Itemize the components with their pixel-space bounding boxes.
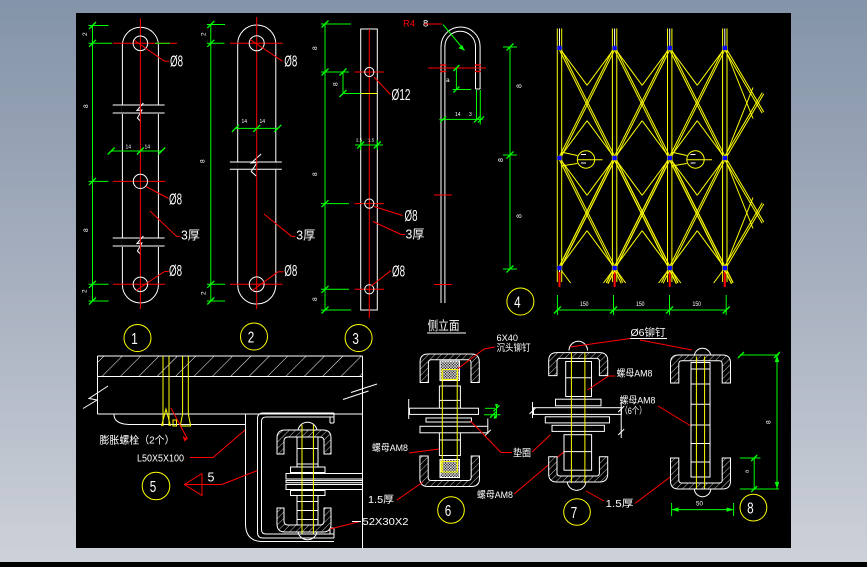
svg-text:1.5: 1.5: [368, 138, 375, 143]
svg-text:8: 8: [333, 82, 340, 86]
svg-text:螺母AM8: 螺母AM8: [477, 490, 513, 501]
svg-text:3: 3: [469, 112, 472, 118]
svg-text:Ø12: Ø12: [392, 87, 411, 104]
svg-text:膨胀螺栓（2个）: 膨胀螺栓（2个）: [100, 434, 175, 447]
svg-text:Ø8: Ø8: [284, 54, 297, 71]
svg-text:50: 50: [696, 502, 704, 508]
svg-text:螺母AM8: 螺母AM8: [620, 396, 656, 407]
svg-text:14: 14: [145, 145, 151, 151]
svg-text:Ø8: Ø8: [392, 264, 405, 281]
svg-text:螺母AM8: 螺母AM8: [617, 369, 653, 380]
svg-text:3: 3: [352, 331, 359, 348]
svg-text:Ø8: Ø8: [170, 54, 183, 71]
svg-text:8: 8: [747, 500, 754, 517]
svg-text:2: 2: [82, 289, 89, 293]
svg-text:2: 2: [82, 32, 89, 36]
svg-text:1.5厚: 1.5厚: [606, 498, 634, 510]
svg-text:（6个）: （6个）: [621, 405, 647, 417]
svg-text:2: 2: [201, 291, 208, 295]
svg-text:8: 8: [83, 104, 90, 108]
svg-text:垫圈: 垫圈: [513, 447, 531, 460]
svg-text:2.5: 2.5: [356, 138, 363, 143]
svg-text:6: 6: [445, 503, 452, 520]
svg-text:52X30X2: 52X30X2: [363, 516, 409, 528]
svg-text:3厚: 3厚: [296, 229, 315, 243]
svg-text:8: 8: [766, 420, 773, 424]
svg-text:14: 14: [260, 119, 266, 125]
svg-text:4: 4: [514, 294, 521, 311]
svg-text:2: 2: [248, 329, 255, 346]
svg-text:L50X5X100: L50X5X100: [137, 454, 184, 465]
svg-text:8: 8: [498, 158, 505, 162]
svg-text:150: 150: [580, 301, 589, 308]
svg-text:螺母AM8: 螺母AM8: [372, 443, 408, 454]
svg-text:3厚: 3厚: [406, 228, 425, 242]
svg-text:1: 1: [131, 331, 138, 348]
svg-text:侧立面: 侧立面: [428, 318, 460, 333]
svg-text:8: 8: [517, 84, 524, 88]
svg-text:R4: R4: [403, 19, 415, 30]
svg-text:3厚: 3厚: [181, 229, 200, 243]
svg-text:Ø8: Ø8: [284, 263, 297, 280]
svg-text:沉头铆钉: 沉头铆钉: [497, 342, 531, 354]
svg-text:8: 8: [83, 228, 90, 232]
svg-text:8: 8: [517, 214, 524, 218]
svg-text:1.5厚: 1.5厚: [368, 494, 394, 506]
svg-text:14: 14: [242, 119, 248, 125]
svg-text:8: 8: [312, 46, 319, 50]
svg-text:7: 7: [571, 505, 578, 522]
svg-text:Ø8: Ø8: [169, 192, 182, 209]
svg-text:8: 8: [312, 297, 319, 301]
svg-text:14: 14: [455, 112, 461, 118]
svg-text:Ø8: Ø8: [169, 263, 182, 280]
svg-text:5: 5: [208, 471, 215, 485]
svg-text:8: 8: [200, 159, 207, 163]
svg-text:a: a: [446, 77, 450, 84]
svg-text:150: 150: [693, 301, 702, 308]
svg-text:5: 5: [150, 479, 157, 496]
svg-text:150: 150: [636, 301, 645, 308]
svg-text:14: 14: [126, 145, 132, 151]
svg-text:Ø6铆钉: Ø6铆钉: [631, 326, 666, 339]
svg-text:Ø8: Ø8: [405, 208, 418, 225]
svg-text:8: 8: [312, 172, 319, 176]
svg-text:2: 2: [201, 32, 208, 36]
